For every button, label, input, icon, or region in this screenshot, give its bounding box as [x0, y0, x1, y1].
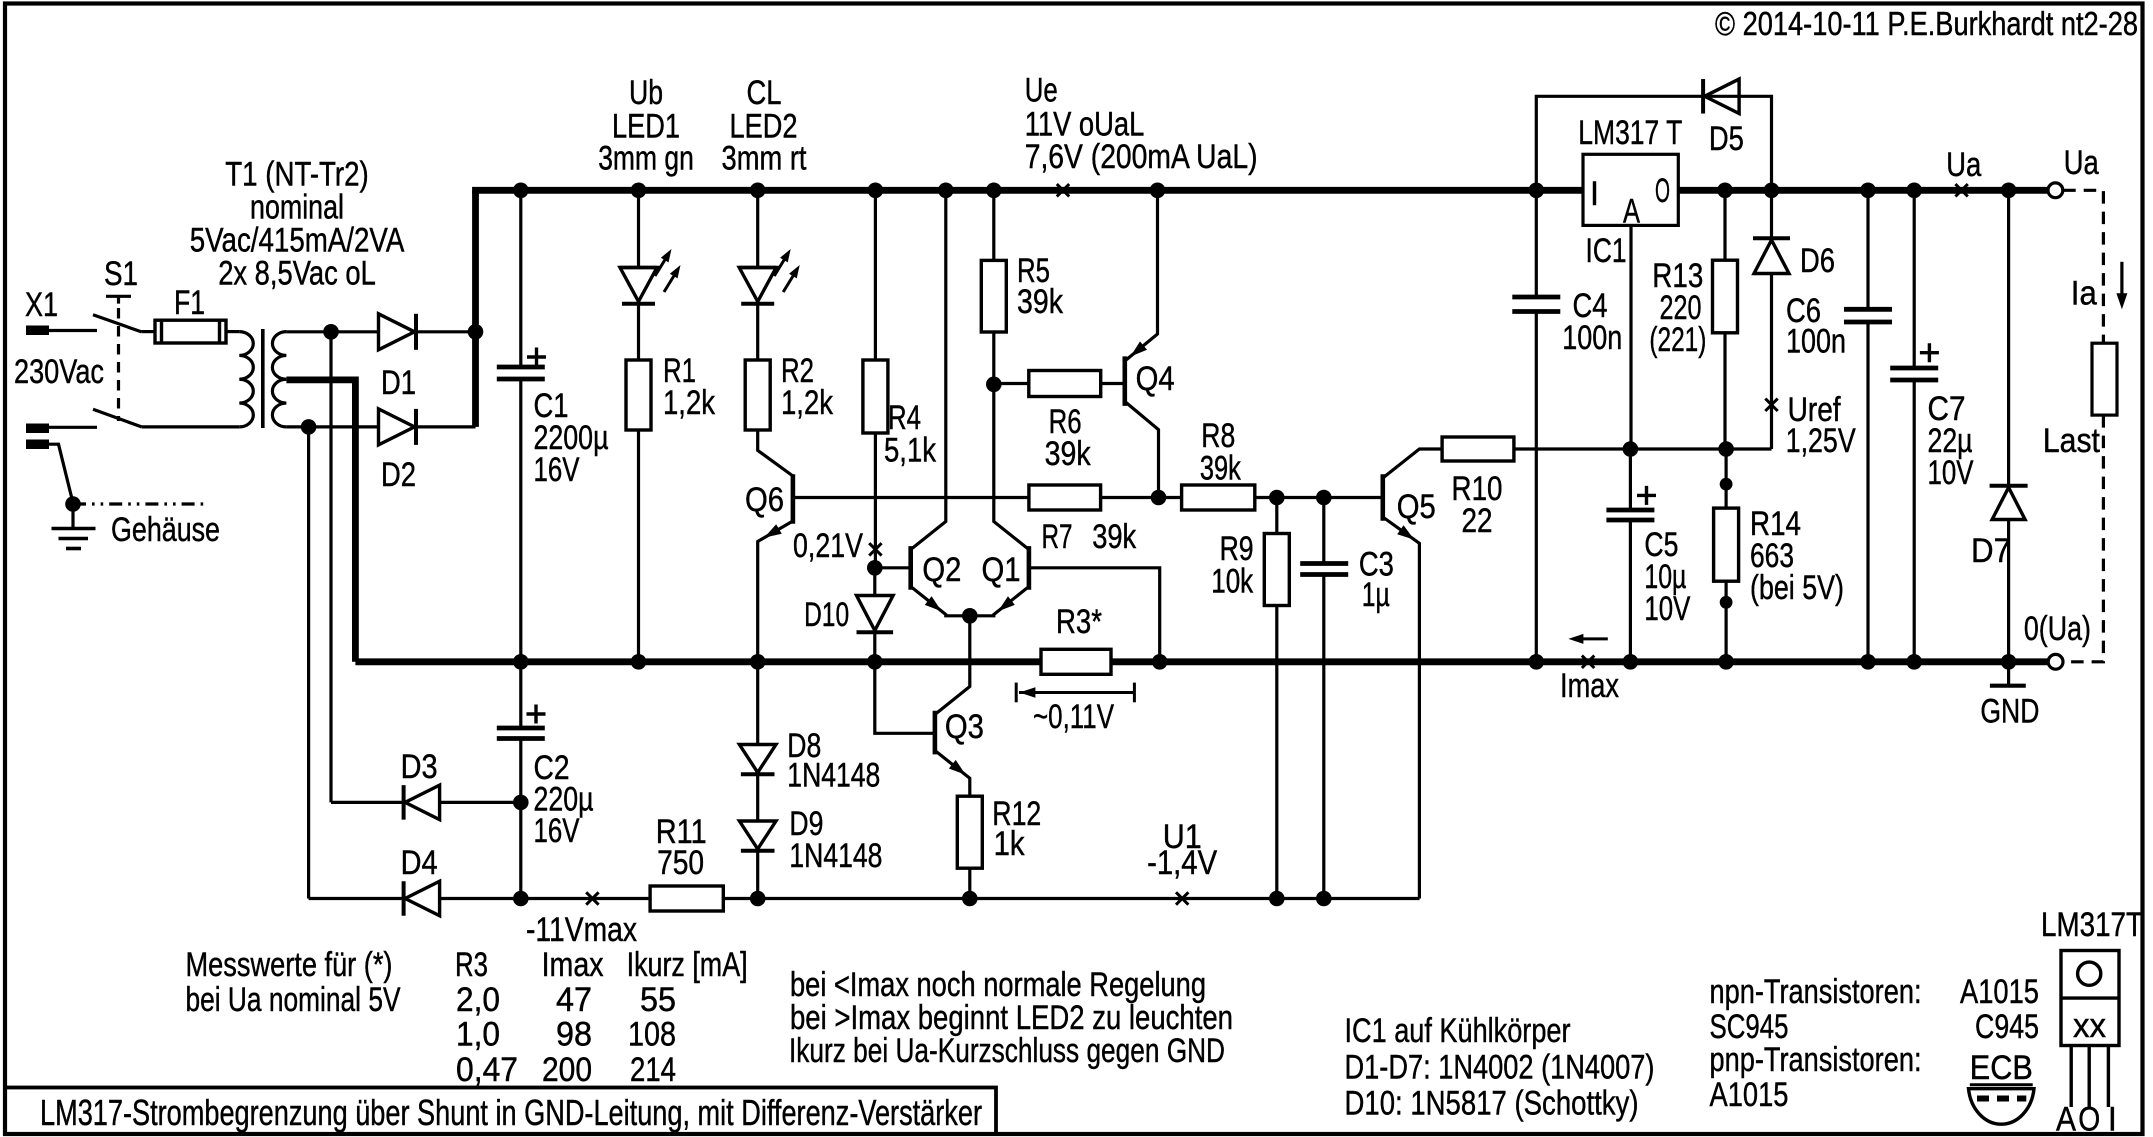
resistor R10: [1442, 437, 1514, 461]
measure point Ue: [1057, 184, 1069, 196]
wire GND rail thick left: [355, 658, 1041, 665]
svg-text:O: O: [2078, 1100, 2100, 1137]
resistor R9: [1264, 534, 1289, 606]
transistor Q1 emitter: [970, 587, 1029, 616]
svg-text:0(Ua): 0(Ua): [2024, 609, 2091, 648]
svg-text:GND: GND: [1980, 692, 2039, 731]
transistor Q5 collector: [1383, 449, 1442, 478]
wire R6 to Q4 base: [1101, 382, 1124, 385]
svg-text:3mm gn: 3mm gn: [598, 139, 694, 178]
svg-text:2x 8,5Vac oL: 2x 8,5Vac oL: [218, 254, 376, 293]
diode D6: [1770, 190, 1773, 240]
svg-text:O: O: [1655, 171, 1670, 210]
svg-text:750: 750: [657, 843, 704, 882]
svg-text:0,47: 0,47: [456, 1050, 518, 1089]
switch S1 pole a blade: [93, 315, 142, 332]
measure point -11Vmax: [586, 892, 598, 904]
svg-text:Q3: Q3: [945, 707, 984, 746]
resistor R1: [626, 360, 651, 430]
svg-text:1k: 1k: [994, 824, 1025, 863]
wire C4 bottom: [1535, 312, 1538, 662]
wire D7 top: [2007, 190, 2010, 485]
wire C1 top: [519, 190, 522, 367]
polarity plus C5: [1637, 486, 1656, 505]
wire R7 to R8: [1101, 496, 1182, 499]
chassis dash-dot line: [73, 502, 208, 505]
svg-text:Imax: Imax: [1560, 666, 1619, 705]
wire D1 to node: [416, 330, 476, 333]
svg-text:-1,4V: -1,4V: [1147, 843, 1217, 882]
wire C6 bottom: [1866, 322, 1869, 662]
svg-text:100n: 100n: [1786, 322, 1846, 361]
led LED1 arrows: [655, 254, 669, 276]
wire R9 bottom: [1275, 606, 1278, 899]
svg-text:X1: X1: [25, 285, 58, 324]
polarity plus C1: [527, 348, 546, 367]
transistor Q1 base bar: [1027, 546, 1032, 590]
node rail LED2: [750, 183, 766, 199]
symbol TO-92 case: [1969, 1089, 2035, 1125]
wire LED2 top: [756, 190, 759, 267]
svg-text:16V: 16V: [534, 811, 580, 850]
ic IC1 LM317 box: [1583, 154, 1678, 225]
svg-text:Messwerte für (*): Messwerte für (*): [186, 945, 393, 984]
node adj C5: [1623, 441, 1639, 457]
measure point Imax: [1582, 656, 1594, 668]
wire IC1 adj pin: [1629, 225, 1632, 449]
svg-text:10k: 10k: [1211, 562, 1253, 601]
svg-text:npn-Transistoren:: npn-Transistoren:: [1710, 972, 1922, 1011]
wire C7 top: [1913, 190, 1916, 368]
node aux C3: [1316, 891, 1332, 907]
node secondary bottom junction: [301, 419, 317, 435]
wire secondary top junction down: [329, 332, 332, 803]
node GND C4: [1529, 654, 1545, 670]
svg-text:D4: D4: [401, 843, 438, 882]
wire Q6 base row: [793, 496, 1029, 499]
svg-text:D6: D6: [1800, 241, 1835, 280]
transistor Q5 emitter arrow: [1397, 525, 1414, 539]
svg-text:D3: D3: [401, 747, 438, 786]
svg-text:10V: 10V: [1928, 453, 1974, 492]
svg-text:Last: Last: [2043, 421, 2100, 460]
transformer T1 core: [261, 329, 265, 428]
measure point U1: [1176, 892, 1188, 904]
resistor R7: [1029, 485, 1101, 510]
diode D8: [739, 745, 776, 773]
svg-text:-11Vmax: -11Vmax: [526, 910, 637, 949]
wire R6 left: [994, 382, 1029, 385]
switch S1 pole b blade: [93, 409, 142, 427]
node rail R5: [986, 183, 1002, 199]
svg-text:D1: D1: [381, 363, 416, 402]
svg-text:47: 47: [556, 980, 592, 1019]
svg-text:IC1: IC1: [1586, 231, 1627, 270]
capacitor C1: [497, 365, 545, 370]
diode D7: [1992, 488, 2025, 520]
wire secondary bottom junction down: [307, 427, 310, 899]
transistor Q3 emitter: [935, 751, 970, 797]
wire R5 bottom: [992, 332, 995, 384]
node aux C2: [513, 891, 529, 907]
node row Q4 collector: [1151, 490, 1167, 506]
wire GND rail thick right: [1111, 658, 2049, 665]
wire D7 bottom: [2007, 520, 2010, 662]
wire C2 bottom: [519, 739, 522, 899]
svg-text:R3: R3: [455, 945, 488, 984]
svg-text:Ua: Ua: [2064, 143, 2100, 182]
resistor R12: [957, 796, 982, 868]
svg-text:1,0: 1,0: [456, 1014, 500, 1053]
svg-text:© 2014-10-11 P.E.Burkhardt nt2: © 2014-10-11 P.E.Burkhardt nt2-28: [1715, 6, 2138, 42]
wire T1 center tap thick: [286, 380, 355, 662]
diode D2: [379, 409, 415, 445]
wire R2 to Q6 collector: [758, 430, 793, 476]
node GND Q1 base: [1152, 654, 1168, 670]
resistor R3: [1041, 649, 1111, 674]
node aux R12: [962, 891, 978, 907]
node GND R1: [631, 654, 647, 670]
svg-text:bei Ua nominal 5V: bei Ua nominal 5V: [186, 980, 401, 1019]
svg-text:2,0: 2,0: [456, 980, 500, 1019]
wire load dashed bottom: [2063, 415, 2103, 662]
svg-text:Ia: Ia: [2071, 274, 2098, 313]
arrow Ia: [2120, 262, 2123, 302]
svg-text:1µ: 1µ: [1362, 575, 1390, 614]
svg-text:200: 200: [542, 1050, 592, 1089]
wire D3 to C2: [440, 801, 521, 804]
svg-text:xx: xx: [2073, 1006, 2106, 1045]
node GND D10: [867, 654, 883, 670]
wire R5 top: [992, 190, 995, 260]
resistor R13: [1713, 260, 1738, 333]
wire C2 top: [519, 662, 522, 728]
transistor Q1 emitter arrow: [998, 596, 1015, 611]
node row R9: [1269, 490, 1285, 506]
svg-text:LM317T: LM317T: [2041, 905, 2143, 944]
transistor Q4 emitter: [1125, 190, 1158, 361]
resistor R14: [1714, 508, 1739, 581]
measure point Ua rail: [1955, 184, 1967, 196]
capacitor C5: [1606, 508, 1654, 513]
led LED2: [739, 266, 776, 269]
node rail R4: [868, 183, 884, 199]
measure point 0,21V: [869, 543, 881, 555]
svg-text:55: 55: [640, 980, 676, 1019]
node R14 bottom pin: [1720, 596, 1733, 609]
wire LED1 to R1: [637, 304, 640, 360]
svg-text:Ikurz [mA]: Ikurz [mA]: [627, 945, 748, 984]
svg-text:D2: D2: [381, 455, 416, 494]
node rail Q2 collector: [938, 183, 954, 199]
measure span R3: [1015, 683, 1018, 703]
transistor Q3 base bar: [933, 711, 938, 755]
diode D10: [873, 568, 876, 596]
transformer T1 primary winding: [239, 332, 253, 427]
wire D8 to D9: [756, 775, 759, 822]
svg-text:39k: 39k: [1200, 449, 1241, 488]
node D1 output junction: [468, 324, 484, 340]
wire D9 to aux rail: [756, 851, 759, 899]
transistor Q4 collector: [1125, 402, 1159, 498]
wire Q2 base: [875, 566, 911, 569]
measure point Uref: [1765, 399, 1777, 411]
node GND C6: [1860, 654, 1876, 670]
svg-text:D1-D7: 1N4002 (1N4007): D1-D7: 1N4002 (1N4007): [1345, 1048, 1655, 1087]
terminal X1 pin 2: [26, 424, 49, 434]
diode D5: [1705, 79, 1740, 114]
svg-text:Q6: Q6: [745, 480, 784, 519]
polarity plus C2: [527, 705, 546, 724]
svg-text:(bei 5V): (bei 5V): [1750, 568, 1844, 607]
wire C3 top: [1322, 498, 1325, 564]
node rail C7: [1906, 183, 1922, 199]
svg-text:16V: 16V: [534, 450, 580, 489]
transistor Q6 base bar: [791, 474, 796, 524]
wire adj row: [1514, 447, 1772, 450]
wire T1 secondary bottom: [286, 425, 378, 428]
transistor Q2 collector: [911, 190, 946, 549]
svg-text:98: 98: [556, 1014, 592, 1053]
svg-text:1N4148: 1N4148: [787, 756, 880, 795]
svg-text:39k: 39k: [1045, 434, 1091, 473]
fuse F1: [155, 320, 226, 343]
svg-text:Ua: Ua: [1946, 145, 1982, 184]
svg-text:Ikurz bei Ua-Kurzschluss gegen: Ikurz bei Ua-Kurzschluss gegen GND: [789, 1031, 1225, 1070]
svg-text:39k: 39k: [1017, 282, 1063, 321]
svg-text:Q1: Q1: [982, 550, 1021, 589]
wire F1 to T1 primary: [226, 330, 239, 333]
node GND C1: [513, 654, 529, 670]
svg-text:39k: 39k: [1092, 517, 1136, 556]
svg-text:Q2: Q2: [922, 550, 961, 589]
svg-text:R3*: R3*: [1056, 602, 1102, 641]
polarity plus C7: [1920, 343, 1939, 362]
svg-text:3mm rt: 3mm rt: [722, 139, 807, 178]
node GND C7: [1906, 654, 1922, 670]
svg-text:108: 108: [628, 1014, 676, 1053]
wire R12 bottom: [968, 868, 971, 898]
node rail C4 D5: [1529, 183, 1545, 199]
ground GND symbol: [2007, 662, 2010, 684]
node aux D8 chain: [750, 891, 766, 907]
wire C3 bottom: [1322, 575, 1325, 899]
node rail Q4: [1150, 183, 1166, 199]
svg-text:D10: 1N5817 (Schottky): D10: 1N5817 (Schottky): [1345, 1084, 1639, 1123]
wire positive rail thick: [472, 187, 1583, 194]
svg-text:S1: S1: [104, 254, 138, 293]
node rail D6: [1764, 183, 1780, 199]
wire C6 top: [1866, 190, 1869, 309]
transistor Q3 collector: [935, 616, 970, 715]
node GND C5: [1623, 654, 1639, 670]
symbol TO-220 body: [2061, 951, 2119, 1046]
node R6 tee: [986, 377, 1002, 393]
node rail D7: [2001, 183, 2017, 199]
svg-text:10V: 10V: [1644, 589, 1690, 628]
node GND Q6: [750, 654, 766, 670]
arrow Imax: [1573, 637, 1608, 640]
wire D2 to corner: [416, 425, 476, 428]
led LED2 arrows: [774, 254, 788, 276]
wire R14 bottom: [1724, 581, 1727, 662]
load box Last: [2092, 343, 2117, 415]
svg-text:IC1 auf Kühlkörper: IC1 auf Kühlkörper: [1345, 1011, 1571, 1050]
svg-text:R7: R7: [1042, 517, 1073, 556]
wire C5 bottom: [1629, 520, 1632, 662]
svg-text:C945: C945: [1975, 1007, 2039, 1046]
svg-text:214: 214: [630, 1050, 676, 1089]
terminal 0(Ua): [2048, 654, 2063, 669]
transistor Q1 collector: [994, 384, 1029, 549]
svg-text:ECB: ECB: [1970, 1048, 2033, 1087]
svg-text:(221): (221): [1649, 320, 1706, 359]
capacitor C6: [1844, 307, 1892, 312]
switch S1 actuator T mark: [106, 296, 131, 303]
wire T1 primary bottom to S1: [142, 425, 240, 428]
diode D4: [405, 881, 440, 916]
node rail C1: [513, 183, 529, 199]
wire Q3 base: [875, 662, 935, 734]
wire R13 bottom: [1723, 333, 1726, 449]
svg-text:100n: 100n: [1562, 318, 1622, 357]
svg-text:1,2k: 1,2k: [781, 383, 833, 422]
wire rectifier output thick: [472, 190, 479, 427]
svg-text:A: A: [1623, 192, 1640, 231]
svg-text:1N4148: 1N4148: [789, 836, 882, 875]
node rail LED1: [631, 183, 647, 199]
transistor Q5 base bar: [1381, 474, 1386, 520]
svg-text:Gehäuse: Gehäuse: [111, 510, 220, 549]
node rail R13: [1717, 183, 1733, 199]
capacitor C3: [1300, 561, 1348, 566]
transistor Q6 emitter arrow: [764, 524, 781, 537]
resistor R6: [1029, 371, 1101, 397]
wire GND to D8: [756, 662, 759, 746]
svg-text:1,25V: 1,25V: [1786, 421, 1856, 460]
svg-text:A1015: A1015: [1960, 972, 2039, 1011]
wire C5 top: [1629, 449, 1632, 510]
ground chassis symbol: [71, 504, 74, 528]
node emitters junction: [962, 608, 978, 624]
switch S1 coupling dashed line: [117, 308, 120, 421]
transistor Q2 emitter: [911, 587, 970, 616]
svg-text:5,1k: 5,1k: [884, 431, 936, 470]
node rail C6: [1860, 183, 1876, 199]
title box: [5, 1088, 996, 1135]
transistor Q5 emitter: [1383, 517, 1420, 899]
wire D5 bypass: [1536, 96, 1771, 190]
terminal Ua: [2048, 183, 2063, 198]
transistor Q4 emitter arrow: [1131, 341, 1148, 356]
svg-text:LM317 T: LM317 T: [1578, 113, 1682, 152]
svg-text:I: I: [2108, 1100, 2117, 1137]
node R14 top pin: [1720, 478, 1733, 491]
transistor Q3 emitter arrow: [949, 760, 966, 775]
svg-text:1,2k: 1,2k: [663, 383, 715, 422]
resistor R4: [863, 360, 888, 433]
transistor Q2 emitter arrow: [925, 596, 942, 611]
svg-text:A1015: A1015: [1710, 1075, 1789, 1114]
wire R13 top: [1723, 190, 1726, 260]
node 0,21V junction: [867, 560, 883, 576]
wire R4 top: [874, 190, 877, 360]
wire LED2 to R2: [756, 304, 759, 360]
svg-text:Imax: Imax: [542, 945, 604, 984]
node row C3: [1316, 490, 1332, 506]
svg-text:~0,11V: ~0,11V: [1033, 697, 1114, 736]
svg-text:0,21V: 0,21V: [793, 526, 863, 565]
transformer T1 secondary winding: [272, 332, 286, 427]
wire earth pin to chassis node: [49, 444, 73, 503]
terminal X1 pin 1: [26, 326, 49, 336]
node C2 D3 junction: [513, 795, 529, 811]
svg-text:D5: D5: [1709, 119, 1744, 158]
diode D3: [405, 785, 440, 820]
wire X1 pin1 to S1: [49, 329, 97, 332]
svg-text:D10: D10: [804, 595, 849, 634]
svg-text:7,6V (200mA UaL): 7,6V (200mA UaL): [1025, 137, 1258, 176]
wire R1 bottom: [637, 430, 640, 662]
wire R4 bottom: [874, 433, 877, 568]
resistor R11: [650, 886, 723, 911]
wire R9 top: [1275, 498, 1278, 534]
wire load dashed top: [2063, 190, 2103, 343]
svg-text:Q4: Q4: [1136, 359, 1175, 398]
transistor Q2 base bar: [908, 546, 913, 590]
wire LED1 top: [637, 190, 640, 267]
node chassis junction: [65, 496, 81, 512]
diode D1: [379, 314, 415, 350]
svg-text:230Vac: 230Vac: [14, 352, 104, 391]
svg-text:A: A: [2056, 1100, 2076, 1137]
svg-text:22: 22: [1462, 501, 1493, 540]
wire C7 bottom: [1913, 380, 1916, 662]
transistor Q6 emitter: [758, 521, 793, 662]
wire S1 to F1: [142, 330, 155, 333]
wire bottom aux rail: [309, 897, 403, 900]
wire X1 pin2 to S1: [49, 426, 97, 429]
resistor R2: [745, 360, 770, 430]
transistor Q4 base bar: [1123, 356, 1128, 406]
wire C1 bottom: [519, 379, 522, 662]
resistor R5: [981, 260, 1006, 332]
symbol TO-220 legs: [2069, 1046, 2072, 1108]
terminal X1 earth pin: [26, 440, 49, 450]
resistor R8: [1182, 485, 1255, 510]
capacitor C7: [1890, 366, 1938, 371]
node GND D7: [2001, 654, 2017, 670]
node secondary top junction: [323, 324, 339, 340]
diode D9: [739, 821, 776, 849]
wire T1 secondary top: [286, 330, 378, 333]
capacitor C4: [1512, 295, 1560, 300]
svg-text:F1: F1: [174, 283, 205, 322]
capacitor C2: [497, 726, 545, 731]
wire C4 top: [1535, 190, 1538, 297]
svg-text:LM317-Strombegrenzung über Shu: LM317-Strombegrenzung über Shunt in GND-…: [40, 1092, 982, 1133]
led LED1: [620, 266, 657, 269]
svg-text:D7: D7: [1971, 531, 2011, 570]
wire Q1 base sense: [1029, 568, 1160, 662]
wire R14 top: [1724, 449, 1727, 508]
svg-text:pnp-Transistoren:: pnp-Transistoren:: [1710, 1040, 1922, 1079]
node GND R14: [1718, 654, 1734, 670]
node aux R9: [1269, 891, 1285, 907]
node adj R13: [1718, 441, 1734, 457]
wire D3 row: [331, 801, 403, 804]
wire R8 to Q5 base: [1255, 496, 1383, 499]
